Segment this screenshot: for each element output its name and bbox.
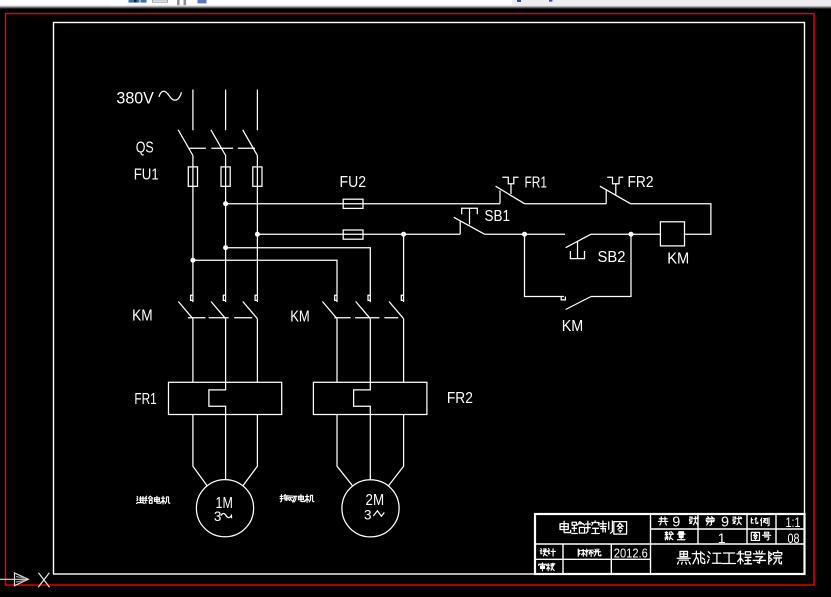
- start button SB2: [566, 234, 591, 258]
- fuse FU2a: [343, 199, 363, 208]
- fuse FU1c: [253, 167, 262, 186]
- junction J2: [255, 232, 260, 237]
- thermal overload FR2 label: [447, 390, 473, 407]
- wire control line upper: [226, 203, 500, 205]
- junction J1: [223, 201, 228, 206]
- svg-text:FR1: FR1: [134, 391, 156, 408]
- svg-text:FR2: FR2: [627, 174, 653, 191]
- KM aux label: [562, 318, 584, 335]
- supply label 380V: [116, 89, 154, 107]
- UCS X axis label: [38, 573, 49, 587]
- KM auxiliary contact branch: [525, 234, 632, 309]
- contactor KM main contact pole3: [255, 295, 257, 300]
- wire node A to SB2: [525, 233, 566, 235]
- contactor KM group2 linkage: [334, 317, 398, 319]
- switch QS blade pole3: [243, 130, 258, 156]
- svg-text:SB2: SB2: [597, 249, 625, 266]
- wire FR2 to coil right side: [631, 204, 711, 235]
- cell 设计: [540, 549, 555, 556]
- stop button SB1: [454, 208, 485, 234]
- UCS icon: [0, 573, 28, 586]
- junction J5: [401, 232, 406, 237]
- wire feeder motor2 phase A: [193, 260, 337, 302]
- wire FR1 to FR2: [525, 203, 607, 205]
- svg-text:SB1: SB1: [484, 208, 510, 225]
- fuse FU1b: [221, 167, 230, 186]
- cell 1:1: [785, 515, 800, 530]
- KM coil label: [667, 251, 689, 268]
- contactor KM main contact pole2: [223, 295, 225, 300]
- wire motor lead mid: [369, 415, 371, 480]
- FR2 NC contact: [600, 177, 631, 203]
- wire phase L2 incoming: [225, 90, 227, 131]
- junction J3: [223, 245, 228, 250]
- svg-text:08: 08: [787, 531, 799, 546]
- SB2 label: [597, 249, 625, 266]
- svg-text:9: 9: [672, 514, 680, 530]
- label motor2 chinese: [280, 495, 314, 503]
- switch QS blade pole2: [211, 130, 226, 156]
- junction J4: [190, 258, 195, 263]
- wire node B to coil: [631, 233, 660, 235]
- motor 2M: [342, 480, 399, 537]
- svg-text:KM: KM: [667, 251, 689, 268]
- thermal overload FR1 label: [134, 391, 156, 408]
- FR2 contact label: [627, 174, 653, 191]
- contactor KM main contact pole4: [335, 295, 337, 300]
- cell 共9张: [659, 514, 699, 530]
- svg-text:2M: 2M: [365, 492, 384, 509]
- wire control line lower: [257, 233, 460, 235]
- label motor1 chinese: [137, 496, 170, 504]
- fuse FU2 label: [339, 174, 366, 191]
- fuse FU1a: [188, 167, 197, 186]
- FR1 contact label: [524, 174, 547, 191]
- wire SB1 to node A: [485, 233, 525, 235]
- wire phase L1 incoming: [192, 90, 194, 131]
- svg-text:FR2: FR2: [447, 390, 473, 407]
- thermal overload FR1 heater: [169, 382, 282, 414]
- contactor KM group1 label: [132, 307, 153, 324]
- SB1 label: [484, 208, 510, 225]
- wire phase 3 bus: [256, 156, 258, 303]
- wire feeder motor2 phase C: [403, 234, 405, 302]
- thermal overload FR2 heater: [313, 382, 427, 414]
- contactor KM main contact pole5: [368, 295, 370, 300]
- cell 2012.6: [614, 546, 648, 561]
- cell 08: [787, 531, 799, 546]
- svg-text:3: 3: [214, 509, 222, 524]
- svg-text:3: 3: [364, 508, 372, 523]
- wire motor lead mid: [225, 415, 227, 480]
- wire motor lead left: [337, 415, 352, 486]
- svg-text:KM: KM: [132, 307, 153, 324]
- switch QS blade pole1: [178, 130, 193, 156]
- wire phase 2 bus: [225, 156, 227, 303]
- contactor KM main contact pole1: [191, 295, 193, 300]
- wire motor lead right: [389, 415, 404, 486]
- svg-text:KM: KM: [290, 309, 310, 326]
- wire motor lead left: [193, 415, 207, 486]
- svg-text:2012.6: 2012.6: [614, 546, 648, 561]
- svg-text:1: 1: [718, 530, 726, 546]
- cell 第9张: [706, 514, 742, 530]
- org name 黑龙江工程学院: [677, 551, 782, 564]
- contactor KM main contact pole6: [401, 295, 403, 300]
- toolbar fragment: [0, 0, 831, 9]
- junction A: [522, 232, 527, 237]
- svg-text:FU2: FU2: [339, 174, 366, 191]
- svg-text:FU1: FU1: [134, 167, 159, 184]
- cell 数量: [665, 532, 685, 540]
- cell 比例: [751, 518, 769, 526]
- svg-text:1:1: 1:1: [785, 515, 800, 530]
- cell 陈怀光: [578, 549, 601, 556]
- contactor KM group2 label: [290, 309, 310, 326]
- svg-text:KM: KM: [562, 318, 584, 335]
- FR1 NC contact: [496, 177, 525, 203]
- wire SB2 to node B: [591, 233, 631, 235]
- fuse FU2b: [343, 230, 363, 239]
- motor 1M: [196, 480, 253, 537]
- wire phase L3 incoming: [256, 90, 258, 131]
- fuse FU1 label: [134, 167, 159, 184]
- title block: [535, 514, 805, 574]
- cell 图号: [751, 532, 770, 540]
- junction B: [629, 232, 634, 237]
- wire motor lead right: [243, 415, 257, 486]
- svg-text:QS: QS: [136, 140, 154, 157]
- switch QS linkage: [189, 147, 255, 149]
- contactor KM group1 linkage: [188, 317, 252, 319]
- switch QS label: [136, 140, 154, 157]
- svg-text:FR1: FR1: [524, 174, 547, 191]
- wire feeder motor2 phase B: [226, 248, 371, 302]
- svg-text:9: 9: [721, 514, 729, 530]
- sine symbol: [159, 91, 181, 100]
- wire phase 1 bus: [192, 156, 194, 303]
- cell qty 1: [718, 530, 726, 546]
- title text 电路控制图: [560, 521, 627, 534]
- contactor coil KM: [660, 222, 684, 246]
- svg-text:380V: 380V: [116, 89, 154, 107]
- cell 审核: [539, 563, 555, 571]
